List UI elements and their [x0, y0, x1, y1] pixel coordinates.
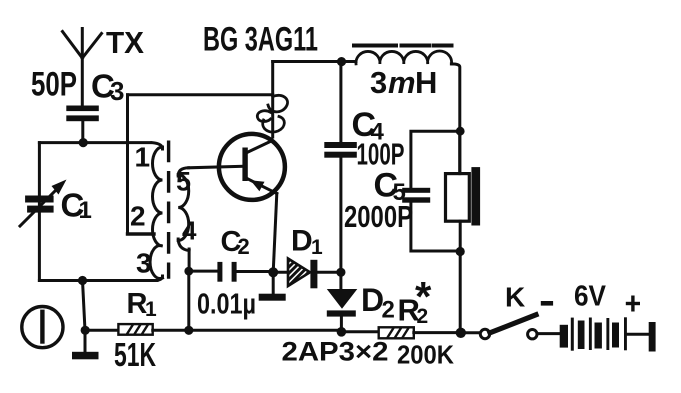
- wire tap2 vertical riser: [126, 95, 129, 234]
- svg-text:4: 4: [182, 216, 197, 246]
- ground (emitter): [259, 272, 286, 300]
- earphone Y1 body: [446, 174, 470, 222]
- wire tank left vertical: [38, 143, 41, 281]
- battery plus sign: [628, 297, 639, 310]
- wire rail R2 to switch node: [414, 331, 461, 334]
- node rail D2 junction: [337, 327, 347, 337]
- svg-text:*: *: [415, 273, 432, 320]
- battery terminal plate: [649, 322, 656, 352]
- node C5 top junction: [456, 127, 465, 136]
- label D1: [291, 225, 323, 260]
- inductor L1 3mH: [356, 51, 452, 64]
- wire rail D2 to R2: [341, 330, 378, 333]
- node D1/D2/C4 junction: [336, 268, 345, 277]
- label R1: [127, 288, 158, 321]
- svg-text:TX: TX: [106, 25, 144, 60]
- diode D1: [273, 259, 338, 289]
- node C5 bottom junction: [456, 247, 465, 256]
- resistor R1: [118, 324, 152, 335]
- svg-text:K: K: [505, 282, 525, 313]
- capacitor C3: [66, 106, 99, 122]
- wire riser top horizontal to collector: [128, 93, 273, 96]
- svg-text:0.01µ: 0.01µ: [197, 289, 256, 321]
- svg-text:m: m: [388, 65, 416, 100]
- svg-text:6V: 6V: [574, 281, 607, 313]
- label R2*: [398, 273, 433, 328]
- wire bottom rail left: [85, 329, 118, 332]
- node rail tap4 junction: [184, 326, 193, 335]
- transformer T1 secondary winding: [178, 168, 188, 176]
- node top rail / C4: [337, 57, 346, 66]
- wire bottom rail mid: [153, 329, 341, 332]
- transformer T1 primary winding: [152, 143, 163, 149]
- svg-text:D: D: [291, 225, 313, 258]
- svg-text:51K: 51K: [114, 336, 156, 373]
- battery minus sign: [541, 301, 553, 306]
- capacitor C2: [217, 262, 236, 282]
- node rail switch junction: [456, 328, 466, 338]
- node tank bottom junction: [78, 276, 87, 285]
- wire tank top: [39, 141, 150, 144]
- svg-text:2: 2: [382, 297, 395, 324]
- earphone Y1 plate: [471, 167, 480, 225]
- svg-text:200K: 200K: [397, 342, 455, 370]
- wire C3 to tank top: [81, 121, 84, 143]
- wire inductor to right corner: [451, 64, 459, 174]
- svg-text:50P: 50P: [31, 66, 77, 104]
- wire tap4 vertical: [187, 271, 190, 330]
- inductor core dashed line: [354, 44, 452, 48]
- label C2: [221, 226, 250, 259]
- svg-text:2000P: 2000P: [344, 199, 413, 234]
- svg-text:1: 1: [79, 197, 92, 224]
- wire C5 bottom branch: [411, 203, 460, 251]
- transistor Q1: [219, 134, 285, 200]
- wire earphone bottom to rail: [459, 221, 462, 332]
- figure number circle 1: [22, 307, 63, 348]
- wire C2 right: [237, 270, 269, 273]
- svg-text:1: 1: [145, 298, 157, 321]
- label C5: [374, 167, 406, 207]
- svg-text:1: 1: [311, 236, 323, 259]
- svg-text:1: 1: [135, 142, 151, 173]
- svg-text:5: 5: [176, 167, 191, 197]
- wire earphone top stub: [458, 131, 461, 173]
- antenna TX: [63, 29, 102, 106]
- svg-text:3: 3: [136, 248, 152, 279]
- capacitor C4: [324, 62, 357, 273]
- ground (left): [72, 330, 99, 359]
- svg-text:BG 3AG11: BG 3AG11: [203, 21, 318, 59]
- diode D2: [327, 272, 358, 332]
- node antenna junction: [79, 138, 88, 147]
- svg-text:H: H: [415, 65, 437, 100]
- wire C5 top branch: [411, 131, 460, 188]
- svg-text:2AP3×2: 2AP3×2: [282, 337, 389, 367]
- svg-text:2: 2: [130, 201, 146, 232]
- node emitter junction: [268, 267, 278, 277]
- wire battery to terminal: [627, 333, 649, 336]
- wire base: [189, 166, 243, 168]
- transformer core dashes: [167, 142, 170, 277]
- collector wire curl: [257, 95, 287, 132]
- svg-text:3: 3: [110, 76, 124, 106]
- label C1: [61, 187, 92, 225]
- wire secondary bottom to C2 node: [188, 249, 191, 271]
- wire tap 2: [128, 232, 155, 235]
- wire tank bottom to rail: [83, 281, 86, 331]
- svg-text:2: 2: [238, 234, 250, 259]
- wire collector vertical: [271, 62, 274, 138]
- node C2 left junction: [184, 267, 193, 276]
- battery B1 cells: [560, 317, 627, 350]
- wire C2 left: [189, 270, 218, 273]
- wire tank bottom: [39, 279, 157, 282]
- wire emitter down: [273, 194, 277, 273]
- capacitor C5: [402, 188, 430, 203]
- label C3: [91, 68, 124, 107]
- capacitor C1 (variable): [20, 180, 67, 227]
- switch K: [461, 315, 560, 339]
- label 3mH: [370, 65, 437, 100]
- resistor R2: [379, 327, 414, 338]
- label C4: [352, 106, 385, 146]
- wire top rail: [273, 60, 356, 63]
- label D2: [361, 282, 395, 324]
- svg-text:3: 3: [370, 65, 387, 100]
- node rail left junction: [81, 326, 90, 335]
